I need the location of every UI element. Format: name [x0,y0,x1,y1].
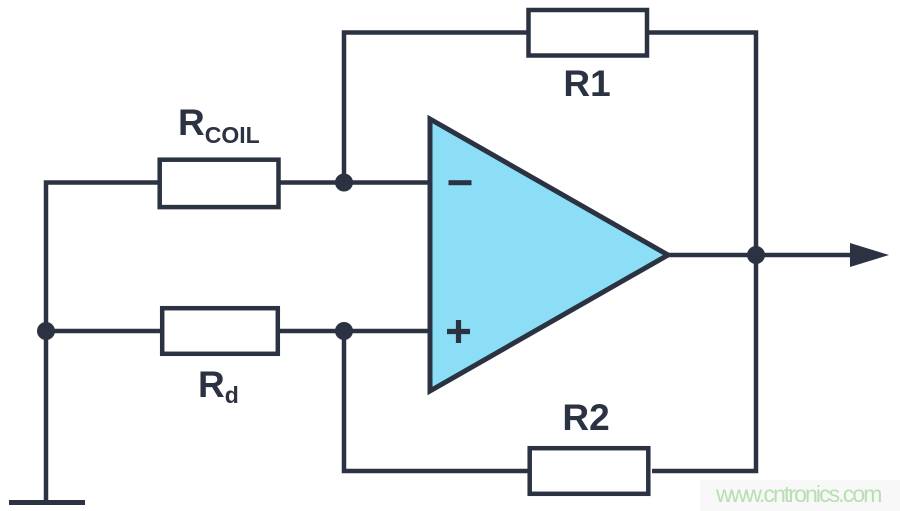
resistor RCOIL (body) [160,160,279,207]
watermark background [700,480,900,511]
op-amp inverting input marker (minus) [449,180,472,185]
svg-text:R1: R1 [563,63,610,104]
resistor R1 (body) [529,10,648,56]
svg-text:www.cntronics.com: www.cntronics.com [715,481,881,507]
node: inverting input junction [335,174,353,192]
node: non-inverting input junction [335,322,353,340]
ground [9,500,85,505]
wire: inverting input branch up to R1 [344,33,528,183]
resistor Rd (body) [162,308,278,354]
wire: left input rail down to ground [46,183,159,503]
op-amp U1 [430,119,668,391]
wire: R2 left side to non-inverting branch [344,331,529,471]
svg-text:Rd: Rd [198,364,239,408]
wire: op-amp output to arrow [666,253,852,258]
output arrowhead [850,243,889,267]
wire: left rail to Rd [46,329,162,334]
op-amp non-inverting input marker (plus) [447,320,470,343]
resistor R2 (body) [530,448,649,494]
svg-text:RCOIL: RCOIL [178,102,260,148]
wire: RCOIL to inverting input [279,180,432,185]
wire: R1 output side down to output node and along bottom to R2 right side [647,33,756,472]
wire: Rd to non-inverting input [278,329,432,334]
node: output junction [747,246,765,264]
node: left rail junction [37,322,55,340]
svg-text:R2: R2 [562,397,609,438]
